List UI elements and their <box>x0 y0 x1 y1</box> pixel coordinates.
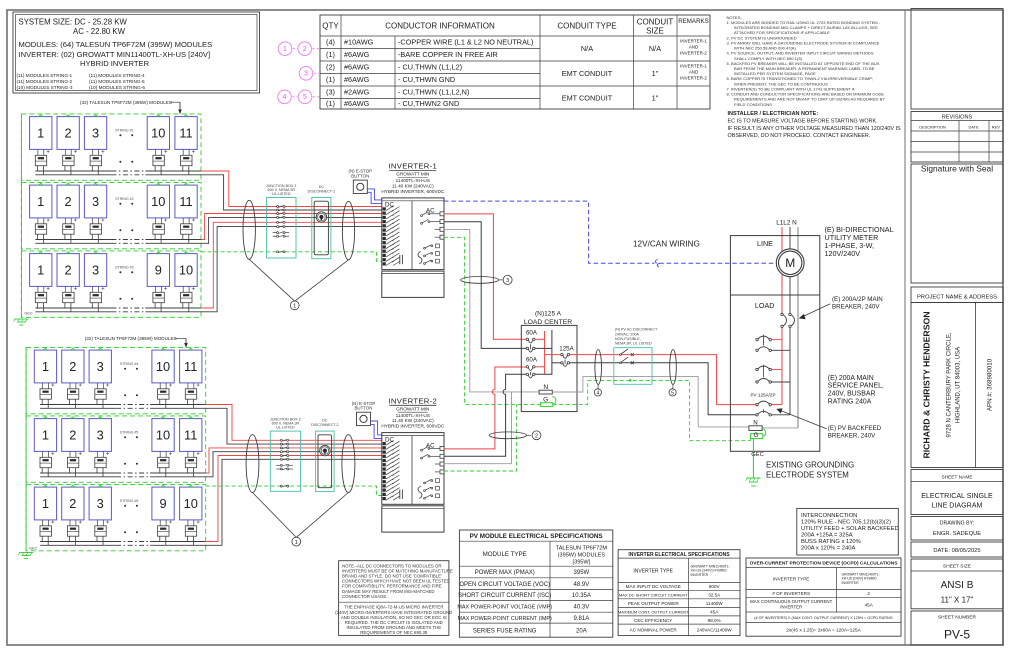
svg-text:48.9V: 48.9V <box>574 582 590 588</box>
svg-text:LINE DIAGRAM: LINE DIAGRAM <box>932 502 983 510</box>
svg-text:Signature with Seal: Signature with Seal <box>921 164 993 174</box>
svg-text:STRING #6: STRING #6 <box>120 499 139 503</box>
svg-text:TALESUN TP6F72M: TALESUN TP6F72M <box>556 545 608 551</box>
svg-text:240VAC/11400W: 240VAC/11400W <box>697 628 732 633</box>
svg-text:APN #: 368980010: APN #: 368980010 <box>987 358 994 411</box>
svg-text:200A x 120% = 240A: 200A x 120% = 240A <box>801 546 855 552</box>
svg-text:MAX INPUT DC VOLTAGE: MAX INPUT DC VOLTAGE <box>626 584 681 589</box>
svg-text:BUSS RATING x 120%: BUSS RATING x 120% <box>801 539 861 545</box>
svg-text:SHEET NAME: SHEET NAME <box>941 474 972 480</box>
svg-text:(E) PV BACKFEED: (E) PV BACKFEED <box>828 425 882 432</box>
svg-text:L1L2 N: L1L2 N <box>776 219 797 226</box>
svg-text:N: N <box>543 384 548 391</box>
svg-text:OPEN CIRCUIT VOLTAGE (VOC): OPEN CIRCUIT VOLTAGE (VOC) <box>459 582 550 588</box>
svg-text:1: 1 <box>37 262 44 277</box>
svg-text:SERIES FUSE RATING: SERIES FUSE RATING <box>473 628 537 634</box>
svg-text:G: G <box>543 397 548 404</box>
svg-text:240VAC, 200A: 240VAC, 200A <box>615 332 640 336</box>
svg-text:4: 4 <box>283 94 287 101</box>
svg-text:SERVICE PANEL,: SERVICE PANEL, <box>828 383 884 390</box>
svg-text:N/A: N/A <box>649 44 661 53</box>
svg-text:LOAD CENTER: LOAD CENTER <box>524 319 572 326</box>
svg-text:11: 11 <box>179 125 192 140</box>
svg-text:11: 11 <box>184 359 197 374</box>
svg-text:45A: 45A <box>865 602 874 607</box>
svg-text:DATE: 08/05/2025: DATE: 08/05/2025 <box>933 548 980 554</box>
svg-text:GEC: GEC <box>24 312 32 316</box>
svg-text:3: 3 <box>92 262 99 277</box>
svg-text:5: 5 <box>671 390 674 396</box>
svg-text:10: 10 <box>151 194 165 209</box>
svg-text:STRING #4: STRING #4 <box>120 362 139 366</box>
svg-text:11400W: 11400W <box>706 601 723 606</box>
svg-text:LINE: LINE <box>757 239 773 248</box>
svg-text:REQUIREMENTS OF NEC 690.35: REQUIREMENTS OF NEC 690.35 <box>360 630 428 635</box>
svg-text:REMARKS: REMARKS <box>678 18 709 25</box>
svg-text:POWER MAX (PMAX): POWER MAX (PMAX) <box>475 570 535 576</box>
svg-text:(4): (4) <box>326 38 335 47</box>
svg-text:10: 10 <box>184 496 198 511</box>
svg-text:2: 2 <box>65 262 72 277</box>
svg-text:5: 5 <box>303 94 307 101</box>
svg-text:(11) MODULES STRING-4: (11) MODULES STRING-4 <box>89 73 145 78</box>
svg-text:(1): (1) <box>326 50 335 59</box>
svg-text:2x(45 x 1.25)= 2x60A = 120A=12: 2x(45 x 1.25)= 2x60A = 120A=125A <box>786 627 861 632</box>
svg-text:INVERTER: INVERTER <box>691 573 709 577</box>
svg-text:(E) 200A MAIN: (E) 200A MAIN <box>828 375 874 382</box>
svg-text:DATE: DATE <box>968 125 978 130</box>
svg-text:1: 1 <box>293 304 296 310</box>
svg-text:EXISTING GROUNDING: EXISTING GROUNDING <box>766 461 854 470</box>
svg-text:11: 11 <box>179 194 192 209</box>
svg-text:20A: 20A <box>576 628 587 634</box>
svg-text:1": 1" <box>652 69 659 78</box>
svg-text:MAX POWER-POINT CURRENT (IMP): MAX POWER-POINT CURRENT (IMP) <box>458 616 552 622</box>
svg-text:INTERCONNECTION: INTERCONNECTION <box>801 513 857 519</box>
svg-text:STRING #5: STRING #5 <box>120 431 139 435</box>
svg-text:3: 3 <box>92 125 99 140</box>
svg-text:11400TL-XH-US: 11400TL-XH-US <box>396 413 430 418</box>
svg-text:#10AWG: #10AWG <box>344 38 374 47</box>
svg-text:120% RULE - NEC 705.12(b)(3)(2: 120% RULE - NEC 705.12(b)(3)(2) <box>801 519 891 525</box>
svg-text:RATING 240A: RATING 240A <box>828 399 872 406</box>
svg-text:MAX DC SHORT CIRCUIT CURRENT: MAX DC SHORT CIRCUIT CURRENT <box>619 592 688 597</box>
svg-text:(N) PV AC DISCONNECT: (N) PV AC DISCONNECT <box>615 328 658 332</box>
svg-text:CONDUIT TYPE: CONDUIT TYPE <box>557 21 616 30</box>
svg-text:9: 9 <box>155 262 162 277</box>
svg-text:11.40 KW (240VAC): 11.40 KW (240VAC) <box>392 418 434 423</box>
svg-text:INVERTER-2: INVERTER-2 <box>680 76 707 81</box>
svg-text:SHEET NUMBER: SHEET NUMBER <box>938 614 977 620</box>
svg-text:1": 1" <box>652 93 659 102</box>
svg-text:M: M <box>785 256 795 270</box>
svg-text:(11) MODULES STRING-2: (11) MODULES STRING-2 <box>17 79 73 84</box>
svg-text:IF RESULT IS ANY OTHER VOLTAGE: IF RESULT IS ANY OTHER VOLTAGE MEASURED … <box>728 126 902 132</box>
svg-text:- CU,THWN GND: - CU,THWN GND <box>398 75 455 84</box>
svg-text:(32) TALESUN TP6F72M (395W) MO: (32) TALESUN TP6F72M (395W) MODULES <box>80 100 172 105</box>
svg-text:PV 125A/2P: PV 125A/2P <box>750 393 775 398</box>
svg-text:60A: 60A <box>526 356 538 363</box>
svg-text:MAXIMUM CONT. OUTPUT CURRENT: MAXIMUM CONT. OUTPUT CURRENT <box>618 610 689 615</box>
svg-text:INVERTER-1: INVERTER-1 <box>389 162 438 171</box>
svg-text:OVER-CURRENT PROTECTION DEVICE: OVER-CURRENT PROTECTION DEVICE (OCPD) CA… <box>750 561 899 567</box>
svg-text:CONDUCTOR INFORMATION: CONDUCTOR INFORMATION <box>385 21 495 30</box>
svg-text:(11) MODULES STRING-5: (11) MODULES STRING-5 <box>89 79 145 84</box>
svg-text:2: 2 <box>65 194 72 209</box>
svg-text:GEC: GEC <box>29 547 37 551</box>
svg-text:INVERTER TYPE: INVERTER TYPE <box>633 568 673 574</box>
svg-text:MODULE TYPE: MODULE TYPE <box>483 551 527 558</box>
svg-text:INVERTER ELECTRICAL SPECIFICAT: INVERTER ELECTRICAL SPECIFICATIONS <box>628 552 730 558</box>
svg-text:INVERTER: (02) GROWATT MIN1140: INVERTER: (02) GROWATT MIN11400TL-XH-US … <box>19 50 211 59</box>
svg-text:#6AWG: #6AWG <box>344 63 370 72</box>
svg-text:PROJECT NAME & ADDRESS: PROJECT NAME & ADDRESS <box>917 295 997 301</box>
svg-text:(10) MODULES STRING-3: (10) MODULES STRING-3 <box>17 85 73 90</box>
svg-text:(395W) MODULES: (395W) MODULES <box>558 552 606 558</box>
svg-text:(3): (3) <box>326 88 335 97</box>
svg-text:GROWATT MIN: GROWATT MIN <box>396 406 429 411</box>
svg-text:60A: 60A <box>526 330 538 337</box>
svg-text:AC - 22.80 KW: AC - 22.80 KW <box>73 27 126 36</box>
svg-text:(N)125 A: (N)125 A <box>535 311 562 318</box>
svg-text:-COPPER WIRE (L1 & L2 NO NEUTR: -COPPER WIRE (L1 & L2 NO NEUTRAL) <box>398 38 533 47</box>
svg-text:FIELD CONDITIONS: FIELD CONDITIONS <box>734 102 772 107</box>
svg-text:AND: AND <box>689 70 699 75</box>
svg-text:10.35A: 10.35A <box>572 593 591 599</box>
svg-text:BUTTON: BUTTON <box>351 174 369 179</box>
svg-text:12V/CAN WIRING: 12V/CAN WIRING <box>633 239 700 248</box>
svg-text:N/A: N/A <box>581 44 593 53</box>
svg-text:AC NOMINAL POWER: AC NOMINAL POWER <box>630 628 678 633</box>
svg-text:AND: AND <box>689 45 699 50</box>
svg-text:3: 3 <box>97 496 104 511</box>
svg-text:40.3V: 40.3V <box>574 605 590 611</box>
svg-text:DC: DC <box>319 185 325 189</box>
svg-text:PEAK OUTPUT POWER: PEAK OUTPUT POWER <box>628 601 680 606</box>
svg-text:10: 10 <box>156 427 170 442</box>
svg-text:600V: 600V <box>709 584 721 589</box>
svg-text:NEMA 3R, UL LISTED: NEMA 3R, UL LISTED <box>615 342 652 346</box>
svg-text:G: G <box>754 432 759 439</box>
svg-text:- CU,THWN2 GND: - CU,THWN2 GND <box>398 99 459 108</box>
svg-text:98.0%: 98.0% <box>708 618 721 623</box>
svg-text:2: 2 <box>69 427 76 442</box>
svg-text:LOAD: LOAD <box>755 301 775 310</box>
svg-text:2: 2 <box>867 591 870 596</box>
svg-text:(# OF INVERTERS) X (MAX CONT.: (# OF INVERTERS) X (MAX CONT. OUTPUT CUR… <box>754 616 893 620</box>
svg-text:3: 3 <box>92 194 99 209</box>
svg-text:INVERTER TYPE: INVERTER TYPE <box>773 576 809 581</box>
svg-text:INVERTER-2: INVERTER-2 <box>389 396 438 405</box>
svg-text:DISCONNECT-1: DISCONNECT-1 <box>308 189 335 193</box>
svg-text:PV-5: PV-5 <box>944 628 970 642</box>
svg-text:DC: DC <box>322 419 328 423</box>
svg-text:2: 2 <box>535 434 538 440</box>
svg-text:SHORT CIRCUIT CURRENT (ISC): SHORT CIRCUIT CURRENT (ISC) <box>458 593 551 599</box>
svg-text:ELECTRICAL SINGLE: ELECTRICAL SINGLE <box>921 492 993 500</box>
svg-text:(1): (1) <box>326 99 335 108</box>
svg-text:ANSI B: ANSI B <box>941 580 974 591</box>
svg-text:(E) 200A/2P MAIN: (E) 200A/2P MAIN <box>832 296 883 303</box>
svg-text:125A: 125A <box>559 345 574 352</box>
svg-text:NON-FUSIBLE,: NON-FUSIBLE, <box>615 337 641 341</box>
svg-text:32.5A: 32.5A <box>708 592 721 597</box>
svg-text:INSTALLER / ELECTRICIAN NOTE:: INSTALLER / ELECTRICIAN NOTE: <box>728 111 819 117</box>
svg-text:(1): (1) <box>326 75 335 84</box>
svg-text:BUTTON: BUTTON <box>355 406 373 411</box>
svg-text:N: N <box>753 420 757 427</box>
svg-text:EMT CONDUIT: EMT CONDUIT <box>562 69 613 78</box>
svg-text:MAX POWER-POINT VOLTAGE (VMP): MAX POWER-POINT VOLTAGE (VMP) <box>457 605 552 611</box>
svg-text:#6AWG: #6AWG <box>344 99 370 108</box>
svg-text:BREAKER, 240V: BREAKER, 240V <box>828 432 876 439</box>
svg-text:9728 N CANTERBURY PARK CIRCLE,: 9728 N CANTERBURY PARK CIRCLE, <box>947 332 953 437</box>
svg-text:2: 2 <box>65 125 72 140</box>
svg-text:1: 1 <box>37 194 44 209</box>
svg-text:SIZE: SIZE <box>646 27 664 36</box>
svg-text:INVERTER-2: INVERTER-2 <box>680 51 707 56</box>
svg-text:QTY: QTY <box>322 21 339 30</box>
svg-text:INVERTER-1: INVERTER-1 <box>680 39 707 44</box>
svg-text:395W: 395W <box>574 570 590 576</box>
svg-text:10: 10 <box>179 262 193 277</box>
svg-text:DRAWING BY:: DRAWING BY: <box>940 521 974 527</box>
svg-text:11.40 KW (240VAC): 11.40 KW (240VAC) <box>392 184 434 189</box>
svg-text:BREAKER, 240V: BREAKER, 240V <box>832 304 880 311</box>
svg-text:#2AWG: #2AWG <box>344 88 370 97</box>
svg-text:#6AWG: #6AWG <box>344 50 370 59</box>
svg-text:REVISIONS: REVISIONS <box>942 115 973 121</box>
svg-text:STRING #1: STRING #1 <box>115 129 134 133</box>
svg-text:(32) TALESUN TP6F72M (395W) MO: (32) TALESUN TP6F72M (395W) MODULES <box>85 336 177 341</box>
svg-text:INVERTER-1: INVERTER-1 <box>680 64 707 69</box>
svg-text:10: 10 <box>151 125 165 140</box>
svg-text:(11) MODULES STRING-1: (11) MODULES STRING-1 <box>17 73 73 78</box>
svg-text:1: 1 <box>42 427 49 442</box>
svg-text:DESCRIPTION: DESCRIPTION <box>919 125 946 130</box>
svg-text:3: 3 <box>506 278 509 284</box>
svg-text:11" X 17": 11" X 17" <box>941 596 974 605</box>
svg-text:UL LISTED: UL LISTED <box>272 192 291 196</box>
svg-text:MAX CONTINUOUS OUTPUT CURRENT: MAX CONTINUOUS OUTPUT CURRENT <box>750 599 832 604</box>
svg-text:ELECTRODE SYSTEM: ELECTRODE SYSTEM <box>766 471 849 480</box>
svg-text:STRING #3: STRING #3 <box>115 266 134 270</box>
svg-text:INVERTER: INVERTER <box>780 605 802 610</box>
svg-text:[395W]: [395W] <box>573 559 591 565</box>
svg-text:GROWATT MIN: GROWATT MIN <box>396 172 429 177</box>
svg-text:CONNECTOR USAGE.: CONNECTOR USAGE. <box>342 594 388 599</box>
svg-text:DC: DC <box>385 436 394 443</box>
svg-text:INVERTER: INVERTER <box>842 581 860 585</box>
svg-text:ENGR. SADEQUE: ENGR. SADEQUE <box>933 531 981 537</box>
svg-text:2: 2 <box>69 359 76 374</box>
svg-text:EC IS TO MEASURE VOLTAGE BEFOR: EC IS TO MEASURE VOLTAGE BEFORE STARTING… <box>728 118 879 124</box>
svg-text:- CU,THWN (L1,L2,N): - CU,THWN (L1,L2,N) <box>398 88 469 97</box>
svg-text:HIGHLAND, UT 84003, USA: HIGHLAND, UT 84003, USA <box>956 347 962 423</box>
svg-text:-BARE COPPER IN FREE AIR: -BARE COPPER IN FREE AIR <box>398 50 498 59</box>
svg-text:CEC EFFICIENCY: CEC EFFICIENCY <box>634 618 672 623</box>
svg-text:PV MODULE ELECTRICAL SPECIFICA: PV MODULE ELECTRICAL SPECIFICATIONS <box>470 533 603 540</box>
svg-text:STRING #2: STRING #2 <box>115 197 134 201</box>
svg-text:2: 2 <box>303 46 307 53</box>
svg-text:1: 1 <box>37 125 44 140</box>
svg-text:200A +125A = 325A: 200A +125A = 325A <box>801 532 853 538</box>
svg-text:EMT CONDUIT: EMT CONDUIT <box>562 93 613 102</box>
svg-text:OBSERVED, DO NOT PROCEED. CONT: OBSERVED, DO NOT PROCEED. CONTACT ENGINE… <box>728 133 871 139</box>
svg-text:DC: DC <box>385 202 394 209</box>
svg-text:9.81A: 9.81A <box>574 616 590 622</box>
svg-text:1: 1 <box>295 540 298 546</box>
svg-text:HYBRID INVERTER: HYBRID INVERTER <box>80 59 150 68</box>
svg-text:9: 9 <box>159 496 166 511</box>
svg-text:UL LISTED: UL LISTED <box>276 426 295 430</box>
svg-text:11: 11 <box>184 427 197 442</box>
svg-text:120V/240V: 120V/240V <box>825 249 861 258</box>
svg-text:1: 1 <box>283 46 287 53</box>
svg-text:3: 3 <box>304 71 308 78</box>
svg-text:CONDUIT: CONDUIT <box>637 18 674 27</box>
svg-text:11400TL-XH-US: 11400TL-XH-US <box>396 178 430 183</box>
svg-text:# OF INVERTERS: # OF INVERTERS <box>772 591 810 596</box>
svg-text:DISCONNECT-2: DISCONNECT-2 <box>311 423 338 427</box>
svg-text:3: 3 <box>97 359 104 374</box>
svg-text:HYBRID INVERTER, 600VDC: HYBRID INVERTER, 600VDC <box>381 424 445 429</box>
svg-text:2: 2 <box>69 496 76 511</box>
svg-text:45A: 45A <box>710 610 719 615</box>
svg-text:SHEET SIZE: SHEET SIZE <box>943 563 971 569</box>
svg-text:RICHARD & CHRISTY HENDERSON: RICHARD & CHRISTY HENDERSON <box>922 311 932 458</box>
svg-text:HYBRID INVERTER, 600VDC: HYBRID INVERTER, 600VDC <box>381 189 445 194</box>
svg-text:(2): (2) <box>326 63 335 72</box>
svg-text:1: 1 <box>42 359 49 374</box>
svg-text:1: 1 <box>42 496 49 511</box>
svg-text:MODULES: (64) TALESUN TP6F72M: MODULES: (64) TALESUN TP6F72M (395W) MOD… <box>19 40 213 49</box>
svg-text:#6AWG: #6AWG <box>344 75 370 84</box>
svg-text:- CU,THWN (L1,L2): - CU,THWN (L1,L2) <box>398 63 462 72</box>
svg-text:10: 10 <box>156 359 170 374</box>
svg-text:GEC: GEC <box>751 452 764 458</box>
svg-text:(10) MODULES STRING-6: (10) MODULES STRING-6 <box>89 85 145 90</box>
svg-text:3: 3 <box>97 427 104 442</box>
svg-text:240V, BUSBAR: 240V, BUSBAR <box>828 391 876 398</box>
svg-text:UTILITY FEED + SOLAR BACKFEED: UTILITY FEED + SOLAR BACKFEED <box>801 526 899 532</box>
svg-text:REV: REV <box>992 125 1000 130</box>
svg-text:4: 4 <box>597 390 600 396</box>
svg-text:SYSTEM SIZE: DC - 25.28 KW: SYSTEM SIZE: DC - 25.28 KW <box>19 18 128 27</box>
